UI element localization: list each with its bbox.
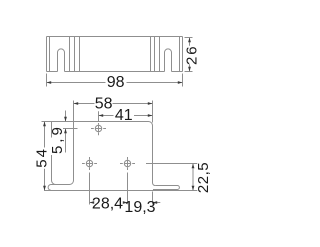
- svg-text:19,3: 19,3: [124, 199, 155, 216]
- svg-text:54: 54: [34, 147, 51, 168]
- svg-text:26: 26: [184, 44, 201, 65]
- svg-text:98: 98: [107, 74, 125, 91]
- svg-text:22,5: 22,5: [195, 162, 212, 193]
- svg-text:5,9: 5,9: [49, 124, 66, 154]
- svg-text:28,4: 28,4: [92, 196, 123, 213]
- svg-text:41: 41: [115, 107, 133, 124]
- svg-text:58: 58: [95, 96, 113, 113]
